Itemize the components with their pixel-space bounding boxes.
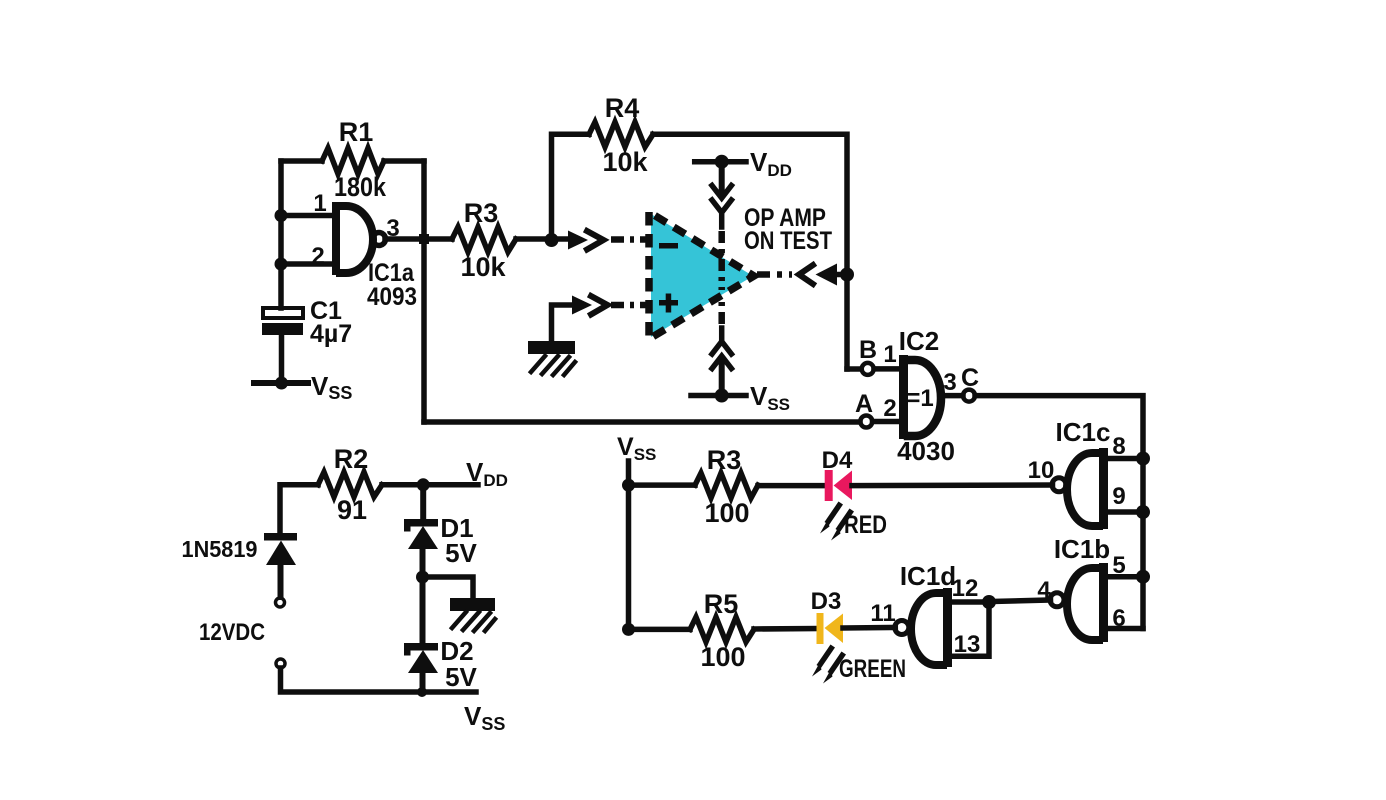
nand gate IC1c body (mirrored) xyxy=(1067,448,1108,529)
Vss flag under C1 xyxy=(254,380,308,386)
svg-text:3: 3 xyxy=(943,369,956,396)
svg-text:2: 2 xyxy=(883,395,896,422)
junction: pin2 node xyxy=(275,258,288,271)
svg-text:=1: =1 xyxy=(906,385,933,412)
wire: IC1b output to pin4 node xyxy=(989,600,1051,602)
svg-text:10: 10 xyxy=(1028,457,1055,484)
wire: ground stub to plus arrow xyxy=(552,305,574,343)
wire: Vss to R5(100) xyxy=(629,627,691,633)
junction: output crosses feedback vertical xyxy=(419,234,429,244)
wire: VDD rail to D1 and to mid node xyxy=(420,485,427,577)
arrows: D4 light emission xyxy=(820,502,854,541)
terminal: 12VDC plus xyxy=(276,598,285,607)
wire: VSS stem xyxy=(719,364,725,396)
arrow: minus input double chevron xyxy=(568,231,588,250)
svg-text:IC1d: IC1d xyxy=(900,561,956,591)
capacitor C1 top plate xyxy=(263,308,303,318)
svg-text:100: 100 xyxy=(700,642,745,672)
wire: B circle to IC2 pin1 xyxy=(874,366,900,372)
wire: R1 top rail right segment xyxy=(384,158,424,164)
node C terminal circle xyxy=(963,390,975,402)
nand gate IC1d body (mirrored) xyxy=(911,588,952,667)
wire: VDD stem xyxy=(719,162,725,192)
junction: VDD node xyxy=(417,478,430,491)
diode 1N5819 xyxy=(264,533,297,565)
svg-text:1N5819: 1N5819 xyxy=(182,536,258,562)
junction: pin5 on bus xyxy=(1136,570,1150,584)
svg-text:1: 1 xyxy=(883,341,896,368)
resistor R2 xyxy=(318,472,382,497)
label plus input xyxy=(659,294,678,313)
wire: dash-dot VSS into op-amp xyxy=(718,298,725,324)
label minus input xyxy=(659,243,678,249)
wire: IC1c pin9 to bus xyxy=(1108,509,1143,515)
svg-text:2: 2 xyxy=(311,243,324,270)
resistor R1 xyxy=(322,148,384,174)
VDD flag above op-amp xyxy=(695,159,746,165)
wire: IC1c pin8 to bus xyxy=(1108,456,1143,462)
svg-text:R5: R5 xyxy=(704,589,739,619)
wire: op-amp output dash-dot xyxy=(757,271,792,278)
svg-text:IC1c: IC1c xyxy=(1056,417,1111,447)
svg-text:D3: D3 xyxy=(811,588,842,615)
svg-text:180k: 180k xyxy=(334,172,387,202)
ground symbol (psu) xyxy=(450,598,495,631)
wire: A rail bottom horizontal xyxy=(424,419,860,425)
junction: op-amp output / feedback node xyxy=(840,268,854,282)
junction: D1-D2 mid node xyxy=(416,571,429,584)
svg-text:4030: 4030 xyxy=(897,436,955,466)
svg-text:10k: 10k xyxy=(460,252,506,282)
resistor R3 100 xyxy=(695,473,758,498)
wire: R1 left vertical from top rail down to C1 xyxy=(278,161,284,308)
wire: C to right bus and down xyxy=(975,396,1143,629)
arrows: D3 light emission xyxy=(812,645,846,684)
wire: R4 top rail to right vertical down to output node xyxy=(653,134,847,369)
arrow: VSS up arrowhead with chevrons xyxy=(715,352,728,365)
wire: 1N5819 to terminal xyxy=(278,565,284,597)
svg-text:1: 1 xyxy=(313,190,326,217)
wire: mid node to D2 and D2 to bottom rail xyxy=(420,577,426,692)
bubble: IC1b output xyxy=(1050,593,1064,607)
wire: Vss rail vertical xyxy=(626,461,632,629)
arrow: output filled head pointing left xyxy=(816,264,838,286)
svg-text:10k: 10k xyxy=(602,147,648,177)
svg-text:91: 91 xyxy=(337,495,367,525)
svg-text:IC1b: IC1b xyxy=(1054,534,1110,564)
svg-text:R3: R3 xyxy=(464,198,499,228)
wire: IC2 output to C circle xyxy=(943,393,963,399)
wire: IC1b pin6 to bus xyxy=(1108,626,1143,632)
svg-text:9: 9 xyxy=(1112,483,1125,510)
svg-text:R3: R3 xyxy=(707,445,742,475)
svg-text:R4: R4 xyxy=(605,93,640,123)
nand gate IC1b body (mirrored) xyxy=(1067,563,1108,642)
wire: R2 to VDD rail xyxy=(382,482,478,488)
arrow: output chevron pointing left xyxy=(799,265,813,284)
terminal: 12VDC minus xyxy=(276,659,285,668)
wire: IC1a pin1 input xyxy=(281,213,333,219)
arrow: plus input double chevron xyxy=(572,296,592,315)
svg-text:12VDC: 12VDC xyxy=(199,619,265,646)
junction: Vss to R3 row xyxy=(622,479,635,492)
wire: feedback to B input circle xyxy=(847,366,861,372)
wire: output to feedback node xyxy=(835,272,847,278)
svg-text:5V: 5V xyxy=(445,538,477,568)
op-amp U1 (on test) cyan body xyxy=(651,214,753,337)
VSS flag below op-amp xyxy=(691,393,746,399)
ground symbol (plus input) xyxy=(528,341,575,375)
svg-text:GREEN: GREEN xyxy=(839,655,906,683)
wire: Vss to R3(100) xyxy=(629,482,696,488)
wire: IC1a output to R3 xyxy=(385,236,452,242)
svg-text:R2: R2 xyxy=(334,444,369,474)
wire: mid node to ground xyxy=(423,577,474,598)
junction: pin12 node xyxy=(982,595,996,609)
zener diode D1 xyxy=(404,519,438,549)
bubble: IC1a output inversion xyxy=(373,233,386,246)
svg-text:R1: R1 xyxy=(339,117,374,147)
wire: feedback vertical x=424 down to A rail xyxy=(421,161,427,422)
arrow: VDD down arrowhead with chevrons xyxy=(715,190,728,203)
wire: R3 to LED D4 xyxy=(758,483,826,489)
junction: pin9 on bus xyxy=(1136,505,1150,519)
wire: A circle to IC2 pin2 xyxy=(873,419,901,425)
svg-text:IC2: IC2 xyxy=(899,326,939,356)
wire: IC1d pins 12-13 tie box xyxy=(952,602,989,656)
wire: minus terminal to bottom rail xyxy=(281,668,477,692)
junction: pin1 node xyxy=(275,209,288,222)
svg-text:11: 11 xyxy=(870,600,895,627)
wire: D3 to IC1d pin11 xyxy=(843,625,895,631)
svg-text:ON TEST: ON TEST xyxy=(744,227,832,255)
bubble: IC1c output xyxy=(1052,478,1066,492)
bubble: IC1d output xyxy=(895,621,909,635)
svg-text:12: 12 xyxy=(952,575,979,602)
wire: C1 to Vss xyxy=(279,335,285,383)
resistor R3 10k xyxy=(452,227,516,252)
junction: D2 on bottom rail xyxy=(417,687,427,697)
wire: R2 left corner down to 1N5819 xyxy=(280,485,318,533)
junction: pin8 on bus xyxy=(1136,452,1150,466)
wire: IC1b pin5 to bus xyxy=(1108,574,1143,580)
wire: R3 to summing node xyxy=(516,236,569,242)
wire: R1 top rail left segment xyxy=(281,158,322,164)
svg-text:C: C xyxy=(961,364,979,392)
junction: Vss to R5 row xyxy=(622,623,635,636)
wire: R5 to LED D3 xyxy=(754,626,818,632)
LED D4 (red) xyxy=(825,470,852,501)
svg-text:4µ7: 4µ7 xyxy=(310,320,352,348)
svg-text:RED: RED xyxy=(844,511,887,539)
node B terminal circle xyxy=(862,363,874,375)
wire: dash-dot VDD into op-amp xyxy=(718,231,725,290)
svg-text:100: 100 xyxy=(704,498,749,528)
xor gate IC2 body xyxy=(899,355,941,439)
junction: summing node xyxy=(545,233,559,247)
svg-text:5V: 5V xyxy=(445,662,477,692)
nand gate IC1a body xyxy=(332,202,373,275)
wire: dash-dot into minus input xyxy=(611,236,650,243)
svg-text:A: A xyxy=(855,390,873,418)
svg-text:B: B xyxy=(859,336,877,364)
wire: D4 to IC1c pin10 xyxy=(852,482,1053,488)
svg-text:4093: 4093 xyxy=(367,283,417,311)
op-amp U1 dashed border xyxy=(649,212,754,339)
capacitor C1 bottom plate xyxy=(262,323,303,335)
node A terminal circle xyxy=(860,416,872,428)
resistor R5 100 xyxy=(690,617,754,642)
LED D3 (green, drawn yellow) xyxy=(817,613,844,644)
resistor R4 xyxy=(589,122,653,147)
zener diode D2 xyxy=(404,643,438,673)
wire: IC1a pin2 input xyxy=(281,261,333,267)
wire: dash-dot into plus input xyxy=(611,302,650,309)
svg-text:D4: D4 xyxy=(822,447,853,474)
wire: R4 loop left vertical xyxy=(552,134,590,240)
